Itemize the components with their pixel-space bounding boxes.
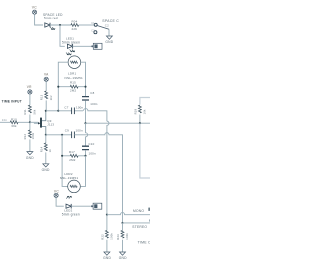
wire node down to LED1 [60,25,65,46]
junction dot (H left rail) [61,134,63,136]
source node dot [45,134,47,136]
switch arm [97,26,109,30]
junction dot R19 [139,122,141,124]
svg-text:R23: R23 [116,234,120,240]
junction dot R15 left [57,86,59,88]
svg-text:C9: C9 [65,129,69,133]
connector pad (top) [91,43,102,49]
svg-text:VC: VC [32,6,37,10]
wire C8 bottom lead [85,101,87,124]
svg-text:GND: GND [42,168,50,172]
junction dot R17 right [84,155,86,157]
cropped label at right edge (stereo jack) [149,219,150,221]
wire R13 to drain node [45,100,47,110]
svg-text:R19: R19 [133,109,137,115]
svg-text:100n: 100n [76,106,83,110]
wire R12 to ground [29,139,31,151]
svg-text:2M2: 2M2 [69,158,75,162]
junction dot C7 row / left rail [57,110,59,112]
mono node dot [106,214,108,216]
wire R04 to switch C1 [79,24,94,26]
wire R14 to ground [45,152,47,163]
transistor Q3 [34,122,38,124]
svg-text:5mm green: 5mm green [62,213,80,217]
wire (light) R19 node to bottom edge [140,123,150,178]
svg-text:1k: 1k [48,149,52,153]
svg-text:C7: C7 [64,106,68,110]
svg-text:GND: GND [26,156,34,160]
ground (R23) [120,252,126,255]
ground (R22) [104,252,110,255]
wire LDR1 left lead / left rail [58,62,68,111]
LDR1 [68,56,81,69]
wire STEREO [123,222,151,224]
svg-text:R11: R11 [23,109,27,115]
svg-text:R14: R14 [39,146,43,152]
svg-text:100n: 100n [76,129,83,133]
ground (switch) [106,36,112,39]
gate node dot [29,121,31,123]
svg-text:MONO: MONO [133,209,144,213]
svg-text:R12: R12 [23,134,27,140]
svg-text:STEREO: STEREO [132,225,147,229]
wire VR to R11 [29,94,31,105]
resistor R14 [44,143,47,151]
svg-text:C2: C2 [91,29,95,32]
LDR2 [68,180,81,193]
LED LED1 [67,44,72,49]
svg-text:C1: C1 [91,22,95,25]
wire C10 to R17 node [85,150,87,156]
wire D4 to node [50,24,72,26]
svg-text:2M2: 2M2 [70,89,76,93]
wire gate node to Q3 gate [30,121,38,123]
wire VC to LED2 [56,198,64,207]
resistor R11 [28,105,31,113]
svg-text:SPACE C: SPACE C [102,19,119,23]
svg-text:100n: 100n [89,152,96,156]
wire LDR1 right lead / right rail [81,62,86,96]
svg-text:C8: C8 [90,91,94,95]
svg-text:100n: 100n [90,102,97,106]
wire VC to D4 row [35,14,43,25]
svg-text:3k2: 3k2 [49,95,53,100]
svg-text:TIME OUT: TIME OUT [138,241,150,245]
wire drain row [46,110,59,112]
svg-text:100k: 100k [109,233,113,240]
switch contact C1 [94,23,97,26]
connector pad (bottom) [91,203,102,209]
wire LED2 to pad [71,205,91,207]
svg-text:10k: 10k [143,109,147,114]
svg-text:22K: 22K [72,27,78,31]
svg-text:NSL-19M51: NSL-19M51 [65,76,84,80]
resistor R22 [106,215,108,231]
svg-text:56k: 56k [33,109,37,114]
svg-text:100k: 100k [31,132,35,139]
svg-text:100k: 100k [125,233,129,240]
svg-text:VC: VC [54,189,59,193]
switch contact C2 [94,31,97,34]
H cluster right rail [81,156,86,187]
wire arm to ground [108,29,110,36]
svg-text:TIME INPUT: TIME INPUT [2,99,22,103]
resistor R12 [29,122,31,130]
stereo node dot [121,222,123,224]
svg-text:10n: 10n [2,118,8,122]
drain node dot [45,110,47,112]
wire source node to R14 [45,135,47,143]
svg-text:C2: C2 [105,23,109,27]
wire C8 node to R19 [84,122,86,124]
junction dot R17 left [61,155,63,157]
svg-text:LDR1: LDR1 [68,71,76,75]
LED LED2 [66,204,71,209]
wire (light) top edge to R19 [140,98,150,105]
wire source row [46,134,72,136]
ground (R14) [43,164,49,167]
wire C9 to stereo rail (hop over mono rail) [74,133,122,223]
LED1 emission arrows (down to LDR1) [70,50,73,52]
LDR1 light arrows [66,53,69,55]
svg-text:VA: VA [44,73,49,77]
ground (R12) [27,152,33,155]
wire LED1 to pad [72,45,91,47]
svg-text:GND: GND [105,40,113,44]
H cluster left rail [62,135,68,187]
wire C7 out with hop over C8 lead [84,109,107,122]
svg-text:R22: R22 [101,234,105,240]
svg-text:R15: R15 [70,80,76,84]
resistor R19 [138,105,141,113]
wire MONO (hop over stereo rail) [107,213,150,215]
cropped label at right edge (mono jack) [148,208,150,211]
D4 emission arrows [50,27,53,29]
svg-text:5mm green: 5mm green [62,41,80,45]
svg-text:GND: GND [119,256,127,260]
wire R23 to ground [122,240,124,252]
resistor R13 [45,91,48,99]
wire R19 to 123-wire [139,115,141,124]
svg-text:R13: R13 [40,94,44,100]
svg-text:J113: J113 [47,123,54,127]
junction dot R15 right [84,86,86,88]
svg-text:39k: 39k [11,124,17,128]
svg-text:VR: VR [27,85,32,89]
svg-text:5mm red: 5mm red [44,16,58,20]
mono rail hop over 123-wire [107,121,109,215]
right rail hop over C9 wire [86,123,88,146]
node dot (D4/R04/LED1) [59,24,61,26]
svg-text:NSL-19M51: NSL-19M51 [60,176,79,180]
LED D4 [45,23,50,28]
LDR2 light arrows (from LED2) [66,196,69,198]
resistor R23 [122,223,124,230]
wire VA to R13 [45,81,47,91]
wire R22 to ground [106,240,108,252]
wire R11 to gate node [29,115,31,123]
svg-text:R17: R17 [69,150,75,154]
svg-text:C10: C10 [89,142,95,146]
svg-text:R04: R04 [72,19,78,23]
svg-text:GND: GND [103,256,111,260]
